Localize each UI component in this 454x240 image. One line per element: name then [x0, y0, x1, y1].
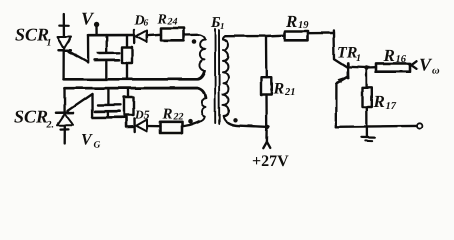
svg-text:R: R — [273, 81, 285, 98]
svg-text:1: 1 — [47, 38, 52, 49]
svg-text:TR: TR — [337, 45, 358, 62]
svg-text:+27V: +27V — [252, 153, 289, 170]
svg-text:22: 22 — [173, 112, 184, 123]
svg-text:1: 1 — [356, 53, 361, 64]
svg-text:19: 19 — [298, 20, 309, 31]
svg-text:R: R — [373, 92, 385, 111]
svg-text:SCR: SCR — [14, 107, 48, 127]
svg-text:24: 24 — [167, 17, 178, 28]
svg-text:R: R — [285, 12, 297, 31]
svg-text:16: 16 — [396, 54, 407, 65]
svg-text:SCR: SCR — [15, 25, 49, 45]
svg-text:2.: 2. — [46, 120, 55, 131]
svg-text:V: V — [419, 55, 433, 75]
svg-text:R: R — [383, 46, 395, 65]
svg-text:V: V — [81, 9, 95, 29]
svg-text:1: 1 — [220, 21, 225, 31]
svg-text:V: V — [81, 132, 93, 149]
svg-text:R: R — [157, 13, 167, 28]
svg-text:21: 21 — [284, 87, 296, 98]
svg-text:ω: ω — [432, 66, 440, 77]
svg-text:17: 17 — [386, 101, 397, 112]
svg-text:R: R — [162, 107, 173, 123]
svg-text:6: 6 — [144, 19, 149, 29]
svg-text:D5: D5 — [134, 108, 150, 122]
svg-text:G: G — [94, 141, 101, 151]
